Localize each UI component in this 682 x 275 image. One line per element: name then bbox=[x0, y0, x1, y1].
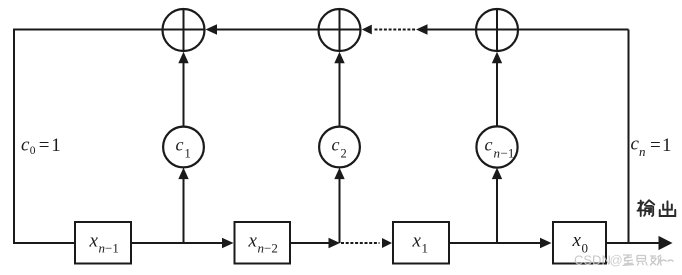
label xn-1 in box Xn-1 bbox=[89, 231, 119, 256]
svg-text:n: n bbox=[494, 146, 501, 161]
wire: vertical arrow tap to C2 bbox=[334, 168, 344, 243]
wire: vertical arrow C1 to XOR A1 bbox=[178, 52, 188, 126]
wire: top bus segment arrowhead to XOR A3 bbox=[427, 29, 477, 31]
wire: top bus dashed continuation segment bbox=[375, 29, 416, 31]
label cn = 1 bbox=[631, 134, 672, 160]
svg-text:x: x bbox=[412, 231, 422, 252]
arrowhead into A2 right bbox=[362, 25, 372, 35]
label x1 in box X1 bbox=[412, 231, 429, 256]
wire: bottom bus left corner to Xn-1 bbox=[13, 242, 74, 244]
svg-text:1: 1 bbox=[422, 241, 429, 256]
wire: bottom bus X1 to X0 with arrowhead bbox=[450, 238, 552, 249]
coefficient circle Cn-1 bbox=[476, 126, 517, 167]
wire: bottom bus Xn-2 to junction with arrowhead bbox=[291, 238, 340, 249]
label 输出 (output) drawn as strokes bbox=[638, 200, 676, 216]
wire: left feedback vertical bbox=[13, 30, 15, 244]
wire: bottom bus X0 to output with arrowhead bbox=[607, 236, 673, 250]
svg-text:c: c bbox=[332, 135, 340, 155]
label cn-1 in circle Cn-1 bbox=[485, 135, 515, 161]
svg-text:−1: −1 bbox=[105, 241, 119, 256]
label xn-2 in box Xn-2 bbox=[248, 231, 278, 256]
wire: vertical arrow tap to Cn-1 bbox=[492, 168, 502, 243]
wire: top bus segment XOR A2 to arrowhead A1 bbox=[216, 29, 319, 31]
svg-text:c: c bbox=[485, 135, 493, 155]
wire: bottom bus Xn-1 to Xn-2 with arrowhead bbox=[132, 238, 234, 249]
xor gate A1 bbox=[162, 8, 205, 51]
wire: bottom bus dashed continuation segment bbox=[341, 242, 380, 244]
arrowhead into X1 bbox=[382, 238, 392, 248]
svg-text:CSDN: CSDN bbox=[574, 253, 611, 268]
wire: vertical arrow Cn-1 to XOR A3 bbox=[492, 52, 502, 126]
svg-text:1: 1 bbox=[185, 147, 191, 161]
label c2 in circle C2 bbox=[332, 135, 347, 161]
register box Xn-2 bbox=[235, 222, 291, 264]
svg-text:−2: −2 bbox=[264, 241, 278, 256]
svg-text:2: 2 bbox=[341, 147, 347, 161]
xor gate A2 bbox=[318, 8, 361, 51]
label x0 in box X0 bbox=[572, 230, 589, 256]
svg-text:n: n bbox=[639, 144, 646, 159]
svg-text:x: x bbox=[248, 231, 258, 252]
register box Xn-1 bbox=[75, 222, 131, 264]
coefficient circle C1 bbox=[163, 127, 204, 168]
register box X1 bbox=[393, 222, 449, 264]
svg-text:c: c bbox=[176, 135, 184, 155]
svg-text:=: = bbox=[39, 135, 50, 156]
svg-text:=: = bbox=[650, 135, 661, 156]
wire: top bus segment from left corner to XOR A1 bbox=[13, 29, 163, 31]
svg-text:x: x bbox=[572, 230, 582, 251]
label c0 = 1 bbox=[21, 135, 61, 158]
wire: vertical arrow C2 to XOR A2 bbox=[334, 52, 344, 126]
svg-text:1: 1 bbox=[662, 135, 672, 156]
label c1 in circle C1 bbox=[176, 135, 191, 161]
xor gate A3 bbox=[475, 8, 518, 51]
watermark CSDN @须尽欢~~ bbox=[574, 253, 674, 268]
svg-text:1: 1 bbox=[51, 135, 61, 156]
wire: top bus segment XOR A3 to right corner bbox=[518, 29, 629, 31]
arrowhead mid top bus pointing left bbox=[416, 24, 428, 35]
coefficient circle C2 bbox=[319, 127, 360, 168]
svg-text:0: 0 bbox=[30, 145, 36, 157]
wire: vertical arrow tap to C1 bbox=[178, 168, 188, 243]
svg-text:c: c bbox=[21, 135, 30, 156]
register box X0 bbox=[553, 222, 606, 264]
wire: right feedback vertical bbox=[628, 30, 630, 244]
svg-text:@: @ bbox=[610, 253, 623, 268]
arrowhead into A1 right bbox=[206, 24, 218, 35]
svg-text:x: x bbox=[89, 231, 99, 252]
svg-text:−1: −1 bbox=[501, 146, 515, 161]
